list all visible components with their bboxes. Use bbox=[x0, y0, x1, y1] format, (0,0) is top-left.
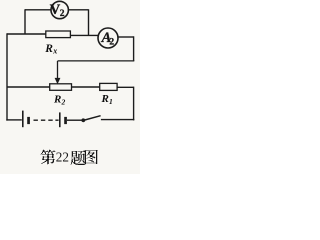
svg-text:1: 1 bbox=[109, 97, 113, 106]
svg-text:2: 2 bbox=[61, 97, 66, 106]
svg-text:x: x bbox=[52, 46, 57, 55]
svg-text:22: 22 bbox=[56, 150, 69, 165]
svg-text:2: 2 bbox=[109, 38, 114, 48]
svg-text:R: R bbox=[44, 43, 53, 55]
svg-text:R: R bbox=[53, 94, 61, 106]
svg-text:2: 2 bbox=[60, 9, 65, 19]
svg-text:R: R bbox=[101, 93, 109, 105]
